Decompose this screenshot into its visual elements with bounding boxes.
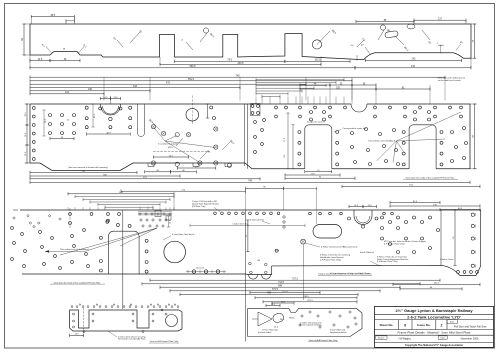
section small holes	[301, 315, 303, 317]
row2 pair holes	[210, 106, 213, 109]
svg-text:121: 121	[65, 91, 70, 94]
view A hump detail dims	[438, 44, 444, 46]
section mini dims	[266, 305, 280, 307]
row3 left field holes	[11, 227, 14, 230]
row2 right small dims	[300, 84, 330, 86]
row2 top row holes right	[275, 106, 278, 109]
view A bump chamfer labels	[46, 47, 52, 54]
view A dimensions below	[30, 60, 50, 62]
notes above title block	[370, 261, 380, 266]
svg-text:757.5: 757.5	[292, 279, 298, 281]
svg-text:PD/DL: PD/DL	[289, 318, 296, 320]
view A leader labels	[130, 32, 140, 43]
svg-text:Frame Plate Details - Materi: Frame Plate Details - Material - 3mm Mil…	[398, 331, 471, 335]
row2 middle leader fan	[154, 128, 165, 142]
view A obround slot	[385, 31, 399, 38]
row3 arch cutout columns	[99, 236, 102, 239]
row3 right top dims	[390, 202, 440, 204]
svg-text:Full Size and Twice Full Size: Full Size and Twice Full Size	[454, 325, 487, 329]
svg-text:343: 343	[133, 85, 138, 88]
row3 centreline dashed	[69, 208, 71, 228]
svg-text:* These holes to be drilled an: * These holes to be drilled and csk	[436, 77, 465, 80]
row3 vertical dim right	[454, 210, 456, 265]
svg-text:416: 416	[411, 65, 416, 68]
right-edge vertical dims	[474, 24, 476, 58]
row3 arch cutout	[108, 231, 139, 274]
row2 arch cutout 1	[101, 104, 121, 115]
svg-text:14.5: 14.5	[38, 59, 43, 61]
title row3 cells	[397, 320, 399, 330]
row2 leader fan	[396, 112, 461, 141]
row2 col after arch1	[129, 106, 132, 109]
svg-text:4 rivet holes 2mm dia fix: 4 rivet holes 2mm dia fix	[172, 233, 195, 236]
section view outline	[248, 309, 362, 337]
svg-text:142: 142	[412, 58, 417, 61]
svg-text:217: 217	[438, 18, 443, 21]
bottom right dims above title	[393, 283, 480, 285]
row2 cluster A inner dims	[43, 110, 45, 136]
inter-row dimension lines	[30, 172, 137, 174]
svg-text:November 2005: November 2005	[461, 338, 479, 341]
row2 holes beside hornslots	[298, 131, 301, 134]
svg-text:472: 472	[166, 82, 171, 85]
view A circle hole	[312, 40, 321, 49]
row2 cluster C holes	[251, 105, 254, 108]
svg-text:560.5: 560.5	[190, 65, 197, 68]
row3 leader fan left	[85, 228, 157, 251]
svg-text:2-6-2 Tank Locomotive 'LYD': 2-6-2 Tank Locomotive 'LYD'	[407, 314, 461, 319]
row2 holes above slot tops	[310, 111, 313, 114]
row2 dimension stack	[30, 76, 445, 78]
svg-text:Copyright The National 2½" Gau: Copyright The National 2½" Gauge Associa…	[405, 343, 464, 347]
row3 tank sheet vertical line	[440, 210, 442, 265]
view A top-edge scallop	[407, 24, 415, 29]
svg-text:2½" Gauge Lynton & Barnstaple: 2½" Gauge Lynton & Barnstaple Railway	[395, 308, 473, 313]
row2 large hole	[186, 108, 199, 121]
svg-text:on the inside face for studs: on the inside face for studs	[438, 79, 461, 82]
svg-text:(for both sides): (for both sides)	[258, 331, 272, 334]
row2 left column rivet holes	[32, 107, 35, 110]
row2 top-edge dip	[351, 104, 367, 112]
svg-text:102.5: 102.5	[314, 59, 321, 62]
svg-text:574.5: 574.5	[272, 289, 278, 291]
svg-text:538.5: 538.5	[303, 296, 309, 298]
row3 countersunk diamonds	[27, 215, 30, 218]
svg-text:4 Holes Clearance for 8BA coun: 4 Holes Clearance for 8BA countersunk	[321, 246, 358, 249]
svg-text:48.5: 48.5	[50, 14, 55, 17]
row3 bracket mini dims	[138, 211, 172, 213]
row2 narrow channel feature	[137, 104, 139, 133]
row3 mid extra details	[247, 220, 249, 252]
svg-text:713.5: 713.5	[278, 282, 284, 284]
svg-text:(RH Plate Only): (RH Plate Only)	[192, 205, 206, 208]
row3 bottom holes with ticks	[192, 270, 195, 273]
svg-text:477.5: 477.5	[307, 300, 313, 302]
section view dims above	[250, 292, 320, 294]
title block	[375, 306, 494, 347]
row3 obround hole	[313, 225, 342, 239]
row2 hornslot stacked dims left	[287, 113, 289, 169]
svg-text:203.5: 203.5	[238, 62, 245, 65]
row2 hornblock slot 2	[409, 125, 436, 169]
bracket top row holes	[71, 306, 73, 308]
bracket centreline	[83, 308, 85, 335]
row3 top row holes	[69, 213, 72, 216]
row2 nested dim comb	[256, 79, 344, 81]
section angled slot	[272, 312, 285, 323]
row3 fold line 2	[245, 210, 247, 342]
view A: frame top-edge profile outline	[30, 24, 471, 59]
svg-text:This outline is to the hardboa: This outline is to the hardboard	[60, 248, 89, 251]
row3 fold line 1	[122, 210, 124, 309]
svg-text:551.5: 551.5	[188, 78, 195, 81]
svg-text:Size:: Size:	[450, 322, 455, 324]
bottom dimension stack	[150, 279, 440, 281]
svg-text:lengthening details: lengthening details	[330, 331, 347, 334]
svg-text:4 Countersink required: 4 Countersink required	[158, 143, 178, 146]
svg-text:142.5: 142.5	[434, 283, 440, 285]
svg-text:Trim and file as fit if hardbo: Trim and file as fit if hardboard	[368, 140, 395, 143]
svg-text:Joins at A-A Frame Plate Only: Joins at A-A Frame Plate Only	[309, 339, 338, 342]
row2 hornblock slot 1	[305, 125, 332, 169]
row3 frame plate outline (open at left)	[20, 210, 481, 276]
svg-text:Date:: Date:	[440, 337, 445, 340]
svg-text:749: 749	[236, 75, 241, 78]
svg-text:14.5 14.5: 14.5 14.5	[196, 268, 205, 270]
row2 bottom-edge small tabs	[148, 163, 154, 167]
svg-text:4 Holes Clears: 4 Holes Clears	[440, 258, 453, 261]
svg-text:View down the inside of the as: View down the inside of the as-fitted RH…	[406, 177, 456, 180]
row2 joggle line pair	[243, 104, 245, 166]
title row5	[376, 336, 388, 339]
svg-text:477.5: 477.5	[282, 291, 288, 293]
svg-text:J W Bagley: J W Bagley	[398, 338, 411, 341]
row3 top holes above arch2	[309, 212, 312, 215]
svg-text:(LH Frame Plate Only): (LH Frame Plate Only)	[384, 242, 405, 245]
row2 left outside vertical dims	[26, 104, 28, 125]
bracket big hole	[166, 315, 178, 327]
row2 leader labels middle	[152, 122, 160, 130]
bracket side holes	[73, 313, 75, 315]
svg-text:View down the inside of the as: View down the inside of the as-fitted LH…	[54, 281, 101, 284]
row3 mid horizontal datum	[190, 225, 305, 227]
row3 crossed hole + leader	[301, 239, 306, 244]
row2 dashed datum	[153, 151, 210, 153]
bracket view outline	[70, 310, 183, 331]
row3 large hole	[164, 241, 186, 263]
row3 right column holes	[471, 213, 474, 216]
row3 dimension stack	[68, 193, 174, 195]
svg-text:Issue No.: Issue No.	[417, 323, 431, 327]
svg-text:Install Offset att: Install Offset att	[360, 251, 374, 254]
svg-text:View at B-B Frame Plate Only: View at B-B Frame Plate Only	[150, 340, 179, 343]
row3 arch 2	[354, 210, 372, 225]
row2 frame plate outline	[30, 104, 470, 171]
row3 right mid holes	[381, 216, 384, 219]
svg-text:Reversed Lever Spindle Plate: Reversed Lever Spindle Plate	[118, 338, 146, 341]
svg-text:Drawn:: Drawn:	[378, 337, 385, 340]
svg-text:6: 6	[404, 323, 406, 327]
svg-text:Ø4: Ø4	[258, 260, 261, 262]
row2 right field holes	[351, 132, 354, 135]
svg-text:2: 2	[440, 323, 442, 327]
svg-text:79.5: 79.5	[227, 59, 232, 62]
svg-text:to the required markings: to the required markings	[300, 324, 322, 327]
row2 cluster A holes	[49, 114, 52, 117]
svg-text:45°: 45°	[361, 45, 364, 47]
svg-text:To adjust to suit to fit: To adjust to suit to fit	[307, 121, 326, 124]
svg-text:(LH Frame Plate Only): (LH Frame Plate Only)	[377, 260, 398, 263]
row3 dragbox arcs	[249, 275, 258, 280]
view A left height dim	[23, 24, 25, 55]
svg-text:196: 196	[88, 88, 93, 91]
svg-text:(LH Frame Plate Only): (LH Frame Plate Only)	[320, 258, 341, 261]
row2 middle crossed holes cluster	[151, 125, 155, 129]
svg-text:Sheet No.: Sheet No.	[379, 323, 393, 327]
view A dimensions above	[31, 16, 74, 18]
svg-text:Countersunk to centre line: Countersunk to centre line	[343, 127, 367, 130]
svg-text:Ø2.5: Ø2.5	[168, 147, 174, 149]
svg-text:(this area removed, if desired: (this area removed, if desired after tri…	[68, 166, 108, 169]
svg-text:1 hole 2.5mm dia: 1 hole 2.5mm dia	[232, 223, 248, 225]
section left arrow detail	[258, 312, 272, 326]
svg-text:full size clearance, 4 holes a: full size clearance, 4 holes as drilled …	[330, 272, 370, 275]
row3 dense bracket cluster	[139, 213, 141, 215]
